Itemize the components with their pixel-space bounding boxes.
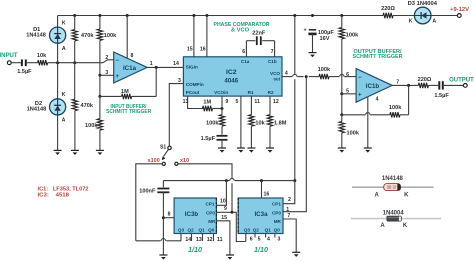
- wire 100k bias to pin5 node: [341, 39, 343, 94]
- svg-text:3: 3: [278, 237, 281, 243]
- resistor 100k lower bias: [97, 119, 102, 131]
- node CP0b junction: [231, 211, 234, 214]
- svg-text:INPUT: INPUT: [0, 53, 18, 59]
- wire rail to 100k top: [99, 16, 101, 30]
- wire VDD to IC3b CP1 pin10: [216, 181, 226, 206]
- ground IC3b MR: [226, 254, 234, 256]
- wire 220R to cap: [428, 84, 438, 86]
- wire rail corner to D1 K: [57, 16, 59, 28]
- wire 100k bias lower to ground: [341, 133, 343, 148]
- svg-text:470k: 470k: [81, 33, 94, 39]
- ground 470k divider: [71, 149, 79, 151]
- ground R1: [247, 147, 255, 149]
- resistor 220R supply: [383, 13, 393, 18]
- node VDD CP1b junction: [225, 179, 228, 182]
- wire pin3 node down to 1M node: [99, 75, 101, 96]
- ground IC2 pin5: [237, 147, 245, 149]
- svg-text:CP1: CP1: [272, 201, 281, 206]
- svg-text:R2: R2: [268, 90, 274, 95]
- wire IC3b CP0 pin9: [216, 211, 232, 213]
- svg-text:R1: R1: [248, 90, 254, 95]
- svg-text:1.5µF: 1.5µF: [17, 69, 32, 75]
- wire IC1b pin4 to ground: [367, 97, 369, 148]
- resistor 100k IC1b bias upper: [339, 28, 344, 40]
- wire IC1a pin3: [100, 74, 114, 76]
- wire pin5 node to feedback node: [341, 94, 343, 115]
- svg-text:A: A: [432, 18, 436, 24]
- wire VDD line to 100nF: [162, 181, 164, 188]
- svg-text:100k: 100k: [85, 123, 98, 129]
- wire 100k feedback left: [370, 114, 390, 116]
- svg-text:VCOin: VCOin: [214, 90, 228, 95]
- wire feedback node to 100k bias lower: [341, 115, 343, 122]
- node output feedback junction: [407, 84, 410, 87]
- node OUTPUT terminal: [463, 84, 467, 88]
- wire IC2 pin9 down: [221, 96, 223, 115]
- svg-text:1.8M: 1.8M: [274, 120, 287, 126]
- resistor 10k R1 timing: [249, 115, 254, 127]
- wire IC1b pin5: [342, 93, 356, 95]
- wire 1M to pin3 column: [100, 95, 122, 97]
- svg-text:6: 6: [242, 49, 245, 55]
- switch S1 x100 contact: [162, 162, 165, 165]
- svg-text:K: K: [409, 18, 413, 24]
- svg-text:D3 1N4004: D3 1N4004: [408, 1, 438, 7]
- wire 1M to pin9 node: [213, 108, 223, 110]
- IC U3b 4518 divide-by-ten: [174, 198, 216, 234]
- wire IC3a Q stubs: [245, 234, 247, 242]
- svg-text:15: 15: [187, 47, 193, 53]
- svg-text:15: 15: [221, 215, 227, 221]
- svg-text:out: out: [273, 77, 280, 82]
- wire IC1b output: [392, 84, 418, 86]
- svg-text:100k: 100k: [346, 33, 359, 39]
- svg-text:CP1: CP1: [205, 201, 214, 206]
- svg-text:K: K: [62, 92, 66, 98]
- diode D1 1N4148 clamp to rail: [50, 27, 66, 43]
- svg-text:100nF: 100nF: [139, 189, 156, 195]
- svg-text:C1b: C1b: [268, 59, 277, 64]
- resistor 470k lower bias: [72, 99, 77, 111]
- svg-text:A: A: [62, 118, 66, 124]
- svg-text:COMPin: COMPin: [186, 82, 204, 87]
- svg-text:10: 10: [220, 198, 226, 204]
- svg-text:100k: 100k: [347, 130, 360, 136]
- svg-text:14: 14: [185, 237, 191, 243]
- svg-text:A: A: [375, 193, 380, 199]
- svg-text:SCHMITT TRIGGER: SCHMITT TRIGGER: [106, 109, 151, 115]
- wire x10 contact to CP0b column: [178, 164, 232, 179]
- node rail junction dots: [73, 14, 76, 17]
- node +9-12V terminal: [457, 14, 461, 18]
- svg-text:−: −: [358, 75, 362, 81]
- wire +V top rail: [58, 15, 383, 17]
- svg-text:Q1: Q1: [199, 228, 206, 233]
- svg-text:8: 8: [168, 212, 171, 218]
- svg-text:10k: 10k: [37, 53, 47, 59]
- ground IC3a MR: [292, 251, 300, 253]
- svg-text:+9-12V: +9-12V: [450, 7, 469, 13]
- wire feedback to 100k: [400, 114, 409, 116]
- wire 470k lower to ground: [74, 111, 76, 151]
- svg-text:IC3b: IC3b: [185, 211, 199, 218]
- wire IC3a CP0 pin1 from VCO: [283, 77, 306, 212]
- svg-text:K: K: [404, 193, 409, 199]
- svg-text:100k: 100k: [389, 105, 402, 111]
- ground R2: [266, 147, 274, 149]
- svg-text:9: 9: [224, 206, 227, 212]
- wire 10k to input node: [48, 62, 103, 64]
- svg-text:IC1: LF353, TL072: IC1: LF353, TL072: [38, 186, 89, 192]
- svg-text:12: 12: [273, 99, 279, 105]
- svg-text:220Ω: 220Ω: [418, 77, 432, 83]
- svg-text:16: 16: [264, 191, 270, 197]
- svg-text:1M: 1M: [203, 99, 211, 105]
- wire D2 A to ground: [57, 115, 59, 151]
- svg-text:2: 2: [288, 197, 291, 203]
- svg-text:& VCO: & VCO: [231, 27, 250, 33]
- wire 10k to ground: [250, 126, 252, 148]
- svg-text:Q1: Q1: [265, 228, 272, 233]
- node VDD line junction: [293, 179, 296, 182]
- wire input node to 470k lower: [74, 63, 76, 99]
- wire IC2 pin5 to ground: [240, 96, 242, 148]
- wire 1.5uF to ground: [221, 140, 223, 148]
- wire feedback down: [408, 85, 410, 114]
- capacitor 100nF supply decoupling: [157, 188, 169, 190]
- svg-text:13: 13: [196, 237, 202, 243]
- svg-text:5: 5: [258, 237, 261, 243]
- svg-text:CP0: CP0: [206, 211, 215, 216]
- resistor 10k input series: [38, 60, 48, 65]
- svg-text:Q0: Q0: [208, 228, 215, 233]
- svg-text:1N4148: 1N4148: [382, 176, 404, 182]
- wire x100 contact left and down: [136, 164, 162, 241]
- wire hop pin6 over divider: [340, 74, 344, 76]
- wire rail to 100k bias upper: [341, 16, 343, 28]
- wire x10 column to CP0b junction: [231, 183, 233, 212]
- ground 100k divider: [96, 149, 104, 151]
- capacitor 1.5uF output coupling: [438, 81, 440, 89]
- resistor 100k IC1b bias lower: [339, 122, 344, 133]
- svg-text:IC1a: IC1a: [123, 65, 137, 72]
- svg-text:470k: 470k: [81, 103, 94, 109]
- svg-text:100k: 100k: [318, 67, 331, 73]
- svg-text:1N4004: 1N4004: [383, 211, 405, 217]
- svg-text:K: K: [62, 21, 66, 27]
- svg-text:x10: x10: [180, 158, 189, 164]
- node IC3b pin8 junction: [162, 216, 165, 219]
- svg-text:13: 13: [183, 99, 189, 105]
- svg-text:A: A: [380, 223, 385, 229]
- svg-text:1.5µF: 1.5µF: [201, 136, 216, 142]
- svg-text:16V: 16V: [320, 36, 330, 42]
- svg-text:10k: 10k: [255, 120, 265, 126]
- wire C1 to R 10k: [27, 62, 38, 64]
- wire hop VCO over VDD drop: [293, 74, 297, 76]
- resistor 1.8M R2 timing: [267, 115, 272, 127]
- wire CP0b to Q3a elbow: [232, 212, 246, 241]
- svg-text:MR: MR: [208, 219, 216, 224]
- svg-text:+: +: [116, 74, 120, 80]
- svg-text:1N4148: 1N4148: [26, 33, 46, 39]
- pictorial 1N4004 lead: [351, 218, 441, 220]
- wire pin6 to 22nF: [246, 40, 255, 42]
- svg-text:220Ω: 220Ω: [381, 6, 395, 12]
- resistor 1M PCout to VCOin: [203, 106, 213, 111]
- switch S1 arm: [164, 149, 169, 156]
- wire IC2 COMPin pin3 from S1: [169, 84, 183, 146]
- svg-text:Q3: Q3: [178, 228, 185, 233]
- resistor 470k upper bias: [72, 30, 77, 42]
- svg-text:11: 11: [254, 99, 260, 105]
- wire IC3b pin8 VSS: [163, 217, 174, 219]
- resistor 100k upper bias: [97, 29, 102, 41]
- wire IC3b MR pin15 to ground: [216, 221, 230, 255]
- svg-text:Q2: Q2: [188, 228, 195, 233]
- wire IC2 pin7 up: [274, 41, 276, 57]
- wire hop Q3b over VSS column: [161, 239, 165, 241]
- svg-text:1/10: 1/10: [254, 247, 268, 254]
- svg-text:6: 6: [346, 72, 349, 78]
- wire IC1a output: [147, 66, 183, 68]
- wire 22nF to pin7: [262, 40, 274, 42]
- IC U2 4046 phase comparator and VCO: [183, 57, 282, 96]
- wire IC3b Q0-Q2 stubs: [191, 234, 193, 242]
- wire IC3b Q3 pin14 to x100: [180, 234, 182, 241]
- svg-text:22nF: 22nF: [252, 30, 266, 36]
- svg-text:MR: MR: [274, 219, 282, 224]
- capacitor 1.5uF input coupling: [21, 59, 23, 66]
- ground loop filter: [218, 147, 226, 149]
- wire IC1a pin8 to rail: [126, 16, 128, 59]
- wire IC2 pin16 to rail: [206, 16, 208, 57]
- IC U3a 4518 divide-by-ten: [238, 198, 283, 234]
- wire hop feedback over pin4: [366, 113, 370, 115]
- wire IC2 pin4 VCOout: [282, 76, 292, 78]
- resistor 1M IC1a positive feedback: [122, 94, 132, 99]
- svg-text:−: −: [116, 58, 120, 64]
- wire cap to OUTPUT terminal: [444, 84, 464, 86]
- wire 100k to 1.5uF: [221, 126, 223, 134]
- ground 100uF: [309, 52, 317, 54]
- svg-text:2: 2: [105, 55, 108, 61]
- wire 100k to pin3 node: [99, 41, 101, 76]
- ground IC1b bias divider: [338, 147, 346, 149]
- wire IC2 pin6 up: [245, 41, 247, 57]
- wire IC3 pin16 VDD: [261, 181, 263, 199]
- switch S1 x10 contact: [175, 162, 178, 165]
- svg-text:Q0: Q0: [274, 228, 281, 233]
- node IC1a output junction: [155, 66, 158, 69]
- svg-text:100k: 100k: [104, 33, 117, 39]
- wire IC3a MR pin7 to ground: [283, 219, 296, 252]
- capacitor 22nF VCO timing: [256, 36, 258, 45]
- wire 100uF to ground: [312, 34, 314, 53]
- wire rail D3 to 220R: [393, 15, 415, 17]
- svg-text:+: +: [304, 28, 307, 34]
- ground IC1b pin4: [364, 147, 372, 149]
- svg-text:CP0: CP0: [272, 211, 281, 216]
- svg-text:5: 5: [236, 99, 239, 105]
- svg-text:1N4148: 1N4148: [27, 107, 47, 113]
- op-amp IC1b output buffer/schmitt trigger: [356, 69, 392, 103]
- wire 1.8M to ground: [269, 126, 271, 148]
- svg-text:x100: x100: [148, 158, 160, 164]
- svg-text:IC3: 4518: IC3: 4518: [38, 193, 70, 199]
- svg-text:IC1b: IC1b: [366, 83, 380, 90]
- svg-text:S1: S1: [160, 144, 166, 150]
- svg-text:4: 4: [285, 70, 288, 76]
- wire hop VDD over x10: [230, 178, 234, 180]
- ground VSS column: [159, 254, 167, 256]
- pictorial 1N4148 lead: [352, 186, 434, 188]
- wire D1 A to input node: [57, 43, 59, 63]
- svg-text:7: 7: [396, 79, 399, 85]
- svg-text:OUTPUT: OUTPUT: [449, 77, 474, 83]
- capacitor 1.5uF loop filter: [217, 135, 228, 137]
- svg-text:Q2: Q2: [253, 228, 260, 233]
- resistor 220R output series: [418, 83, 428, 88]
- node VCO output junction: [305, 75, 308, 78]
- svg-text:100µF: 100µF: [318, 30, 335, 36]
- svg-text:7: 7: [287, 213, 290, 219]
- svg-text:11: 11: [217, 237, 223, 243]
- svg-text:100k: 100k: [206, 120, 219, 126]
- wire VDD line: [235, 180, 295, 182]
- svg-text:8: 8: [131, 53, 134, 59]
- wire feedback to 1M: [132, 95, 157, 97]
- switch S1 pole contact: [168, 146, 171, 149]
- wire 100k lower to ground: [99, 130, 101, 150]
- node VDD pin16 junction: [260, 179, 263, 182]
- svg-text:IC2: IC2: [226, 69, 237, 76]
- wire IC1a feedback drop: [155, 67, 157, 96]
- wire 470k to input node: [74, 41, 76, 63]
- wire rail to 470k top: [74, 16, 76, 30]
- svg-text:4: 4: [267, 237, 270, 243]
- svg-text:4: 4: [376, 96, 379, 102]
- svg-text:A: A: [62, 46, 66, 52]
- wire 100k to IC1b pin6: [329, 76, 339, 78]
- svg-text:9: 9: [225, 99, 228, 105]
- svg-text:12: 12: [207, 237, 213, 243]
- svg-text:1/10: 1/10: [188, 247, 202, 254]
- node IC1b pin5 junction: [340, 92, 343, 95]
- svg-text:PCout: PCout: [186, 90, 200, 95]
- node IC1a pin3 junction: [98, 74, 101, 77]
- resistor 100k loop filter: [219, 115, 224, 127]
- node input clamp junctions: [56, 61, 59, 64]
- svg-text:7: 7: [271, 49, 274, 55]
- node IC1b feedback junction: [340, 113, 343, 116]
- capacitor 100uF reservoir: [309, 29, 316, 31]
- node 1M feedback junction: [98, 95, 101, 98]
- svg-text:K: K: [403, 223, 408, 229]
- node INPUT terminal: [7, 61, 11, 65]
- svg-text:C1a: C1a: [241, 59, 250, 64]
- svg-text:4046: 4046: [224, 77, 238, 84]
- svg-text:16: 16: [200, 47, 206, 53]
- diode D3 1N4004 supply: [414, 7, 431, 24]
- wire input terminal to C1: [11, 62, 21, 64]
- svg-text:SCHMITT TRIGGER: SCHMITT TRIGGER: [353, 54, 403, 60]
- resistor 100k IC1b feedback: [390, 112, 400, 117]
- wire 100nF to VSS column: [162, 192, 164, 255]
- svg-text:+: +: [358, 92, 362, 98]
- svg-text:IC3a: IC3a: [254, 211, 268, 218]
- wire VDD drop to IC3a CP1 pin2: [283, 181, 295, 204]
- svg-text:1: 1: [150, 61, 153, 67]
- diode D2 1N4148 clamp to ground: [50, 99, 66, 115]
- svg-text:Q3: Q3: [244, 228, 251, 233]
- svg-text:14: 14: [173, 61, 179, 67]
- svg-text:1.5µF: 1.5µF: [434, 93, 449, 99]
- wire input node to D2 K: [57, 63, 59, 99]
- wire VDD drop from rail: [294, 16, 296, 75]
- wire 1M node to 100k lower: [99, 96, 101, 118]
- svg-text:6: 6: [250, 237, 253, 243]
- wire IC2 pin13 down: [188, 96, 203, 108]
- svg-text:SIGin: SIGin: [186, 64, 198, 69]
- ground D2: [54, 149, 62, 151]
- node VCOin junction: [221, 107, 224, 110]
- svg-text:VCO: VCO: [270, 71, 280, 76]
- wire input node to IC1a pin2 jog: [103, 60, 114, 63]
- wire IC2 pin11 down: [250, 96, 252, 115]
- wire IC2 pin15 to rail: [193, 16, 195, 57]
- resistor 100k IC1b input: [319, 74, 329, 79]
- wire rail D3 to +9-12V terminal: [431, 15, 458, 17]
- pictorial 1N4004 body: [387, 216, 401, 221]
- op-amp IC1a input buffer/schmitt trigger: [114, 52, 148, 83]
- svg-text:3: 3: [178, 78, 181, 84]
- svg-text:1M: 1M: [121, 89, 129, 95]
- wire IC2 pin12 down: [269, 96, 271, 115]
- pictorial 1N4148 body: [384, 184, 401, 191]
